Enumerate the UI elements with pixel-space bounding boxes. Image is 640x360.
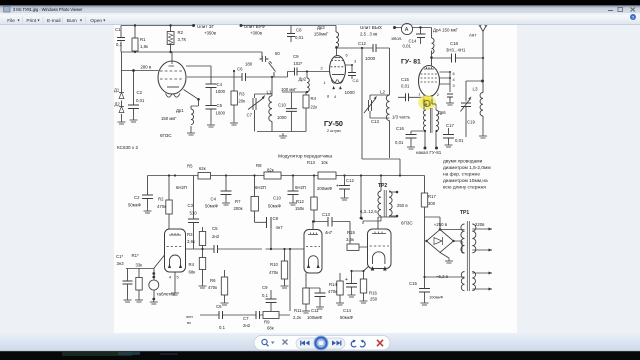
svg-text:С11: С11 (311, 308, 319, 313)
svg-text:Burn: Burn (67, 18, 77, 24)
svg-text:С18: С18 (450, 41, 458, 46)
svg-text:Др1: Др1 (176, 108, 184, 113)
svg-text:С2: С2 (134, 195, 140, 200)
svg-text:≈250 в: ≈250 в (434, 222, 448, 227)
svg-text:150 мкГ: 150 мкГ (161, 116, 177, 121)
svg-text:R4: R4 (311, 96, 317, 101)
svg-text:С10: С10 (278, 103, 286, 108)
svg-text:100 мкГ: 100 мкГ (281, 87, 297, 92)
svg-text:С10: С10 (273, 196, 281, 201)
svg-text:3 Mc ГУ81.jpg - Windows Photo: 3 Mc ГУ81.jpg - Windows Photo Viewer (13, 7, 83, 12)
svg-text:R11: R11 (294, 308, 302, 313)
svg-text:5: 5 (177, 275, 179, 280)
svg-text:на фер. стержне: на фер. стержне (443, 172, 480, 178)
svg-text:R16: R16 (369, 291, 377, 296)
svg-text:ТР1: ТР1 (460, 210, 469, 216)
svg-text:вх: вх (187, 320, 191, 325)
svg-text:470к: 470к (269, 270, 278, 275)
svg-text:С16: С16 (396, 126, 404, 131)
svg-text:С11: С11 (353, 79, 359, 83)
svg-text:0,1: 0,1 (262, 293, 269, 298)
svg-text:C1: C1 (115, 27, 121, 32)
svg-text:6Н2П: 6Н2П (295, 185, 306, 190)
svg-text:R14: R14 (329, 282, 337, 287)
svg-text:68к: 68к (189, 270, 196, 275)
svg-text:С7: С7 (243, 316, 249, 321)
svg-text:62к: 62к (199, 166, 206, 171)
svg-text:50мкФ: 50мкФ (268, 204, 282, 209)
svg-text:Ант: Ант (469, 33, 476, 38)
svg-text:диаметром 10мм,на: диаметром 10мм,на (443, 178, 488, 184)
svg-text:С15: С15 (401, 77, 409, 82)
svg-text:ГУ-50: ГУ-50 (324, 119, 343, 128)
svg-text:ГУ- 81: ГУ- 81 (401, 59, 421, 66)
svg-text:лин: лин (186, 314, 193, 319)
svg-text:3,6к: 3,6к (346, 237, 354, 242)
svg-text:6: 6 (453, 71, 455, 76)
svg-text:280 в: 280 в (141, 65, 152, 70)
svg-text:+350в: +350в (204, 31, 217, 36)
svg-text:▼: ▼ (79, 19, 83, 23)
svg-text:6: 6 (346, 53, 348, 58)
svg-text:0,1: 0,1 (219, 325, 226, 330)
svg-text:С13: С13 (322, 212, 330, 217)
svg-text:6,3..12,6: 6,3..12,6 (360, 209, 377, 214)
svg-text:1000: 1000 (216, 111, 226, 116)
svg-text:R13: R13 (307, 160, 315, 165)
svg-text:50мкФ: 50мкФ (128, 203, 142, 208)
svg-text:6П3С: 6П3С (401, 221, 413, 226)
svg-text:1: 1 (418, 92, 420, 97)
svg-text:6Н2П: 6Н2П (176, 185, 187, 190)
svg-text:+: + (336, 184, 339, 190)
svg-text:всю длину стержня: всю длину стержня (443, 186, 486, 191)
svg-text:300: 300 (428, 201, 436, 206)
svg-text:Open: Open (90, 18, 102, 24)
svg-text:50: 50 (275, 51, 280, 56)
svg-text:2: 2 (321, 66, 323, 71)
svg-text:1000: 1000 (365, 56, 376, 61)
svg-text:1000: 1000 (345, 90, 356, 95)
svg-text:0,01: 0,01 (395, 140, 404, 145)
svg-text:2,5 ..3 кв: 2,5 ..3 кв (360, 32, 378, 37)
svg-text:4н7: 4н7 (325, 230, 333, 235)
svg-text:68к: 68к (267, 326, 274, 331)
svg-text:470к: 470к (328, 289, 337, 294)
svg-text:4: 4 (453, 77, 456, 82)
svg-text:3: 3 (354, 59, 356, 64)
svg-text:Модулятор передатчика: Модулятор передатчика (278, 154, 332, 160)
svg-text:С12: С12 (358, 41, 366, 46)
svg-text:С3: С3 (188, 203, 194, 208)
svg-text:R10: R10 (270, 262, 278, 267)
svg-text:С1*: С1* (116, 254, 123, 259)
svg-text:3: 3 (453, 83, 455, 88)
svg-text:E-mail: E-mail (47, 18, 61, 24)
svg-text:R7: R7 (235, 199, 241, 204)
svg-text:Др6: Др6 (438, 110, 446, 115)
svg-text:Uпит БУФ: Uпит БУФ (244, 24, 265, 29)
svg-text:L1: L1 (267, 90, 273, 95)
svg-text:С4: С4 (217, 82, 223, 87)
svg-text:150к: 150к (295, 206, 304, 211)
svg-text:82к: 82к (267, 168, 274, 173)
svg-text:1/3 часть: 1/3 часть (392, 115, 411, 120)
svg-text:R4: R4 (189, 262, 195, 267)
svg-text:510: 510 (190, 211, 198, 216)
svg-text:0,01: 0,01 (455, 138, 464, 143)
svg-text:1: 1 (324, 80, 326, 85)
svg-text:50мкФ: 50мкФ (205, 204, 219, 209)
svg-text:С4: С4 (211, 197, 217, 202)
svg-text:6П3С: 6П3С (160, 133, 172, 138)
svg-text:2н2: 2н2 (243, 323, 251, 328)
svg-text:2,2к: 2,2к (293, 315, 301, 320)
svg-text:220в: 220в (475, 222, 485, 227)
svg-text:R1: R1 (140, 37, 146, 42)
svg-text:С15: С15 (409, 281, 417, 286)
svg-text:+: + (345, 277, 348, 283)
svg-text:R17: R17 (428, 194, 436, 199)
svg-text:двумя проводами: двумя проводами (443, 160, 483, 165)
svg-text:0,01: 0,01 (401, 84, 410, 89)
svg-text:С14: С14 (343, 308, 351, 313)
svg-text:100мкФ: 100мкФ (307, 315, 323, 320)
svg-text:1,8к: 1,8к (140, 44, 148, 49)
svg-text:180: 180 (245, 62, 253, 67)
svg-text:Print: Print (26, 18, 37, 24)
svg-text:диаметром 1,5-2,0мм: диаметром 1,5-2,0мм (443, 165, 491, 171)
svg-text:150мкГ: 150мкГ (314, 32, 329, 37)
svg-text:в: в (361, 216, 364, 221)
svg-text:3Н3...4Н1: 3Н3...4Н1 (446, 48, 466, 53)
svg-text:4н7: 4н7 (276, 225, 284, 230)
svg-text:22к: 22к (311, 105, 318, 110)
svg-text:С9: С9 (293, 54, 299, 59)
svg-text:КС630 х 2: КС630 х 2 (117, 145, 138, 150)
svg-text:R2: R2 (178, 30, 184, 35)
svg-text:С5: С5 (212, 226, 218, 231)
svg-text:R9: R9 (264, 320, 270, 325)
svg-text:?: ? (632, 15, 635, 20)
svg-text:С8: С8 (273, 216, 279, 221)
svg-text:Uпит ВЫХ: Uпит ВЫХ (360, 25, 382, 30)
svg-text:20к: 20к (239, 99, 246, 104)
svg-text:R8: R8 (256, 163, 262, 168)
svg-text:С5: С5 (217, 103, 223, 108)
svg-text:Др3: Др3 (317, 25, 325, 30)
svg-text:250 в: 250 в (397, 203, 408, 208)
svg-text:0,01: 0,01 (295, 35, 304, 40)
svg-text:0,1: 0,1 (116, 42, 123, 47)
svg-text:▼: ▼ (37, 19, 41, 23)
svg-text:3,7К: 3,7К (178, 37, 187, 42)
svg-text:470к: 470к (157, 204, 166, 209)
svg-text:ипол.: ипол. (392, 36, 403, 41)
svg-text:200к: 200к (234, 206, 243, 211)
svg-text:0,01: 0,01 (403, 44, 412, 49)
svg-text:+300в: +300в (250, 31, 263, 36)
svg-text:R1*: R1* (132, 253, 139, 258)
svg-text:8: 8 (327, 94, 329, 99)
svg-text:470к: 470к (208, 285, 217, 290)
svg-text:L2: L2 (380, 90, 386, 95)
svg-text:R6: R6 (210, 278, 216, 283)
svg-text:R12: R12 (296, 199, 304, 204)
svg-text:Др4 150 мкГ: Др4 150 мкГ (433, 28, 459, 33)
svg-text:С19: С19 (467, 120, 475, 125)
svg-text:10к: 10к (321, 160, 328, 165)
svg-text:3н3: 3н3 (117, 261, 125, 266)
svg-text:50мкФ: 50мкФ (340, 315, 354, 320)
svg-text:0,01: 0,01 (136, 98, 145, 103)
svg-text:R5: R5 (187, 164, 193, 169)
svg-text:3,6к: 3,6к (187, 239, 195, 244)
svg-text:▼: ▼ (17, 19, 21, 23)
svg-text:▼: ▼ (103, 19, 107, 23)
svg-text:File: File (7, 18, 15, 24)
svg-text:2: 2 (437, 92, 439, 97)
svg-text:R3: R3 (187, 232, 193, 237)
svg-text:С6: С6 (216, 304, 222, 309)
svg-text:ТР2: ТР2 (378, 183, 387, 189)
svg-text:Uпит ЗГ: Uпит ЗГ (197, 24, 215, 29)
svg-text:С9: С9 (262, 285, 268, 290)
svg-text:С6: С6 (237, 67, 243, 72)
svg-text:С13: С13 (371, 119, 379, 124)
svg-text:250: 250 (370, 297, 378, 302)
svg-text:200мкФ: 200мкФ (317, 186, 333, 191)
svg-text:Д1: Д1 (114, 88, 120, 93)
svg-text:6Н2П: 6Н2П (255, 185, 266, 190)
svg-text:С12: С12 (346, 178, 354, 183)
svg-text:таблетке: таблетке (157, 292, 176, 297)
svg-text:2н2: 2н2 (212, 234, 220, 239)
svg-text:4: 4 (334, 94, 337, 99)
svg-text:А: А (405, 27, 409, 33)
svg-text:100мкФ: 100мкФ (429, 295, 443, 300)
svg-text:С17: С17 (446, 123, 454, 128)
svg-text:R15: R15 (347, 230, 355, 235)
svg-text:2 штуки: 2 штуки (327, 129, 341, 133)
svg-text:4: 4 (169, 275, 172, 280)
svg-text:R2: R2 (158, 197, 164, 202)
svg-text:102*: 102* (294, 61, 303, 66)
svg-text:С8: С8 (296, 28, 302, 33)
svg-text:R3: R3 (239, 92, 245, 97)
svg-text:Д2: Д2 (115, 102, 121, 107)
svg-text:~6,2 в: ~6,2 в (436, 274, 449, 279)
svg-text:33к: 33к (136, 263, 143, 268)
svg-text:1000: 1000 (277, 115, 287, 120)
svg-text:С7: С7 (247, 113, 253, 118)
svg-text:С2: С2 (137, 90, 143, 95)
svg-text:накал ГУ-81: накал ГУ-81 (416, 150, 442, 155)
svg-text:Др2: Др2 (299, 77, 307, 82)
svg-text:1000: 1000 (216, 89, 226, 94)
svg-text:L3: L3 (473, 87, 479, 92)
